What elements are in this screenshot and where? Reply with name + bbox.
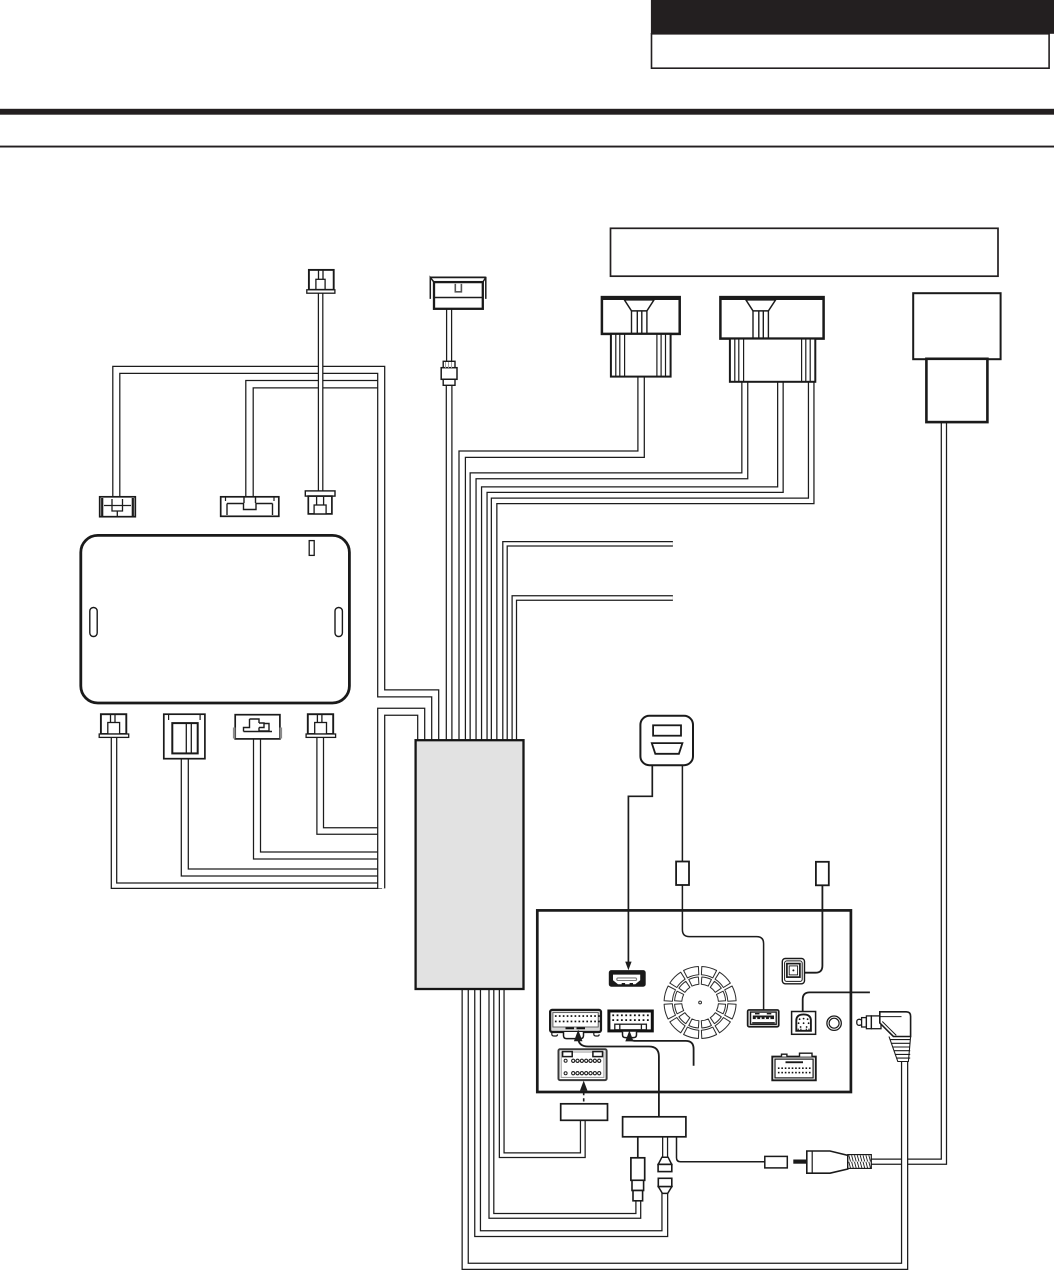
fan hub — [699, 1001, 702, 1004]
wire HDMI adapter left lead with arrow to HDMI port — [628, 765, 652, 964]
block R1 — [561, 1104, 608, 1121]
stub wire 1 from gray box — [505, 544, 673, 741]
connector B3 inner maze — [244, 719, 273, 732]
wire from connector B1 to corridor — [114, 737, 382, 886]
hideaway unit top notch — [309, 541, 314, 556]
USB top connector front box — [434, 282, 483, 309]
16-pin connector C2 shell — [609, 1011, 652, 1031]
gray wiring-harness block — [416, 740, 524, 989]
wire mini-DIN connector out to right — [803, 992, 870, 1011]
wire connector B lead 2 to gray harness box — [484, 381, 780, 741]
connector A top shell — [602, 297, 680, 334]
wire arrow into 24-pin connector C1 from R2 — [578, 1038, 659, 1117]
connector L3 inner box — [314, 505, 326, 514]
connector B4 body — [308, 714, 333, 734]
C2 bottom slot — [615, 1024, 647, 1030]
caption label box — [611, 228, 999, 276]
C2 bottom slot marks — [620, 1024, 642, 1030]
bottom block top tabs — [782, 1053, 813, 1056]
connector A lower body — [611, 334, 671, 377]
RCA male body lip — [811, 1151, 813, 1172]
plug P1 inner slot lines — [319, 271, 324, 280]
hideaway unit left slot — [90, 608, 97, 637]
connector B1 inner box — [108, 723, 120, 735]
antenna jack circle — [827, 1016, 841, 1030]
dashed arrow from R1 to connector C3 — [583, 1088, 585, 1102]
bottom block dark bar — [786, 1061, 804, 1063]
inline connector upper funnel — [658, 1157, 672, 1164]
AV plug ring 1 — [862, 1018, 867, 1027]
wire connector A to gray harness box — [462, 376, 641, 741]
GPS antenna box lower — [926, 359, 987, 422]
mini-DIN feet — [798, 1029, 809, 1031]
wire gray box to 3.5mm AV-IN plug (bottom loop) — [465, 989, 904, 1266]
thin horizontal rule — [0, 146, 1054, 148]
ferrite bead body — [441, 368, 457, 380]
plug P1 flange — [307, 290, 335, 293]
HDMI adapter inner bar — [653, 725, 681, 735]
block R2 — [623, 1117, 686, 1137]
connector B1 flange — [99, 734, 129, 737]
connector B2 body — [164, 714, 205, 759]
wire microphone plug P1 down to connector L3 — [318, 292, 324, 492]
C3 latch right — [593, 1052, 603, 1057]
connector B4 flange — [306, 734, 336, 737]
mini-DIN pins — [799, 1018, 801, 1020]
arrowhead into C2 — [625, 1030, 633, 1041]
RCA male pin — [793, 1160, 807, 1164]
connector L1 side tabs — [102, 498, 133, 516]
USB port inner — [751, 1012, 777, 1024]
cylindrical plug section 3 — [633, 1191, 643, 1201]
connector B2 inner box — [172, 723, 197, 753]
connector B funnel stems — [753, 311, 768, 338]
wire from connector B4 to corridor — [320, 737, 382, 832]
USB top connector back plate — [430, 277, 486, 299]
HDMI port inner slot — [617, 978, 637, 981]
connector L2 body — [221, 497, 279, 517]
wire connector B lead 1 to gray harness box — [473, 381, 745, 741]
wire arrow into 16-pin connector C2 hanging J lead — [629, 1037, 693, 1066]
C2 bottom tab — [623, 1032, 637, 1038]
connector A right stripes — [657, 335, 666, 377]
cooling fan grille — [664, 967, 736, 1039]
steering remote terminal — [816, 862, 829, 886]
connector L2 inner detail — [227, 498, 273, 516]
HDMI adapter box — [640, 716, 693, 765]
AV plug body — [880, 1012, 911, 1037]
connector B lower body — [730, 339, 815, 382]
HDMI port — [610, 971, 646, 986]
wire harness L2 connector to bus — [250, 384, 382, 497]
bottom block inner — [775, 1059, 813, 1078]
connector B3 side tabs — [234, 728, 281, 739]
wire ferrite to gray harness box — [446, 385, 453, 742]
wire USB top connector to ferrite — [446, 308, 452, 362]
plug P1 body — [309, 270, 334, 290]
wire corridor from bottom connectors to gray harness box — [381, 712, 421, 889]
connector B4 inner box — [315, 723, 327, 735]
ferrite bead teeth — [446, 362, 452, 368]
arrowhead dashed into C3 — [580, 1081, 588, 1091]
inline connector lower body — [658, 1178, 672, 1186]
wire R2 block to inline connector upper half — [662, 1137, 668, 1158]
wire HDMI adapter right lead to USB port — [682, 765, 763, 1011]
bottom block pins — [778, 1067, 780, 1069]
connector L3 body — [308, 496, 332, 514]
connector B funnel — [746, 300, 776, 311]
thick horizontal rule — [0, 109, 1054, 115]
wire from connector B2 to corridor — [185, 758, 382, 873]
arrowhead into HDMI port — [625, 962, 631, 971]
connector A top edge — [602, 297, 680, 300]
USB top connector notch — [455, 284, 461, 292]
connector B2 inner dividers — [186, 724, 191, 753]
plug P1 inner box — [316, 279, 325, 289]
connector L3 flange — [305, 491, 335, 496]
square remote connector square — [787, 964, 800, 978]
connector L2 corner steps — [226, 498, 275, 502]
AV plug ring 2 — [866, 1016, 871, 1029]
USB port shell — [748, 1010, 779, 1027]
header white title box — [652, 34, 1050, 68]
connector A left stripes — [616, 335, 625, 377]
GPS antenna box upper — [913, 293, 1000, 359]
connector A funnel stems — [632, 311, 647, 333]
wire GPS antenna box down to RCA plug — [872, 422, 944, 1162]
harness connector C3 shell — [559, 1049, 607, 1080]
ferrite bead on USB cable — [443, 361, 455, 367]
connector L3 inner detail — [317, 497, 324, 505]
wire harness L1 connector to bus and down to hideaway harness corridor — [116, 370, 435, 741]
connector B4 inner slot — [317, 715, 322, 723]
USB port contacts — [753, 1016, 774, 1020]
AV plug body inner line — [880, 1017, 901, 1036]
C1 bottom bars — [566, 1027, 586, 1029]
wire R2 to cylindrical plug — [637, 1137, 639, 1159]
square remote connector ring — [785, 961, 803, 982]
HDMI adapter inner trapezoid — [652, 743, 683, 754]
mini-DIN connector shell — [792, 1012, 816, 1035]
C1 corner feet — [552, 1032, 599, 1036]
AV plug tip — [857, 1019, 862, 1025]
connector L1 inner detail — [104, 499, 131, 516]
bottom 20-pin connector block shell — [772, 1057, 816, 1081]
hideaway unit box — [81, 535, 350, 703]
cylindrical plug section 1 — [631, 1158, 645, 1181]
24-pin connector C1 shell — [550, 1010, 601, 1032]
square remote connector pin — [792, 969, 794, 971]
wire connector B lead 3 to gray harness box — [494, 381, 811, 741]
USB top connector divider — [435, 297, 483, 299]
ferrite bead bottom — [443, 379, 455, 385]
connector B2 corner steps — [169, 715, 201, 720]
mini-DIN socket — [796, 1014, 811, 1030]
wire from connector B3 to corridor — [257, 738, 382, 855]
C1 pin field — [553, 1013, 598, 1027]
connector B right stripes — [802, 339, 811, 381]
ferrite bead on HDMI-USB cable — [676, 862, 689, 886]
wire gray box to inline connector pair (loop) — [478, 989, 665, 1233]
C3 inner border — [561, 1052, 604, 1077]
arrowhead into C1 — [574, 1030, 583, 1041]
square remote connector outer — [782, 959, 804, 984]
header black title bar — [651, 0, 1054, 34]
connector B top shell — [720, 297, 823, 339]
wire gray box to cylindrical plug (loop) — [491, 989, 638, 1216]
inline connector upper body — [658, 1164, 672, 1171]
C3 latch left — [563, 1052, 573, 1057]
connector B1 inner slot — [111, 715, 116, 723]
C1 pins — [555, 1015, 557, 1017]
RCA female jack — [765, 1156, 788, 1168]
C3 pin holes — [564, 1059, 567, 1062]
square remote connector inner square — [789, 966, 797, 975]
RCA male body — [807, 1151, 848, 1173]
C1 bottom tab — [564, 1032, 584, 1039]
connector B left stripes — [735, 339, 744, 381]
connector B top edge — [720, 297, 823, 300]
AV plug barrel — [871, 1016, 881, 1029]
cylindrical plug section 2 — [632, 1180, 644, 1190]
connector A funnel — [624, 300, 654, 311]
connector B3 body — [235, 715, 280, 739]
head unit rear panel box — [537, 910, 851, 1092]
wire R2 to RCA female jack — [677, 1137, 766, 1162]
hideaway unit right slot — [335, 608, 342, 637]
stub wire 2 from gray box — [514, 598, 673, 741]
HDMI port socket outline — [613, 975, 640, 985]
wire steering-remote terminal to square connector — [805, 885, 823, 973]
connector B1 body — [101, 714, 126, 734]
connector L1 body — [100, 497, 136, 517]
C2 pins — [612, 1014, 614, 1016]
AV plug spring relief — [889, 1037, 911, 1062]
wire power block R1 into gray box — [502, 989, 583, 1155]
inline connector lower funnel — [658, 1187, 672, 1194]
RCA male spring barrel — [848, 1155, 872, 1169]
